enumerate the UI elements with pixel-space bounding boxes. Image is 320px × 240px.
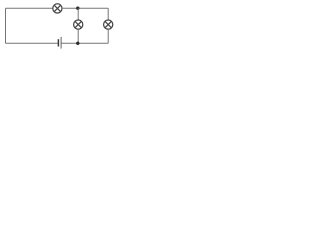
battery B1 positive plate [60, 37, 62, 49]
wire: top wire right segment [62, 7, 108, 9]
lamp L2 [74, 20, 83, 29]
lamp L3 [104, 20, 113, 29]
battery B1 negative plate [57, 39, 59, 46]
wire: middle branch upper [77, 8, 79, 20]
wire: right branch upper [107, 8, 109, 20]
wire: middle branch lower [77, 29, 79, 43]
node junction bottom [76, 42, 79, 45]
wire: right branch lower [107, 29, 109, 43]
wire: bottom wire left segment [6, 42, 58, 44]
wire: bottom wire right segment [62, 42, 109, 44]
node junction top [76, 7, 79, 10]
wire: left vertical wire [5, 8, 7, 43]
wire: top wire left segment [6, 7, 53, 9]
lamp L1 [53, 4, 62, 13]
